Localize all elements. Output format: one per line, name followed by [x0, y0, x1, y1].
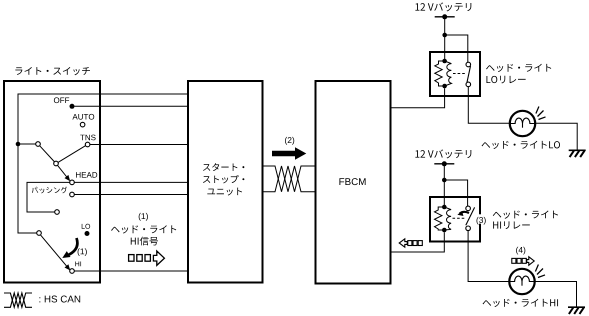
wire: LO contact to lamp: [468, 87, 510, 124]
node: HI branch: [442, 178, 447, 183]
contact AUTO: [80, 122, 85, 127]
relay LO coil: [435, 61, 445, 86]
label (3): [474, 214, 489, 223]
ground: HI lamp: [568, 306, 585, 308]
wire: HEAD to passing common: [27, 182, 70, 212]
label: unit line3: [207, 188, 242, 196]
lamp: head light LO: [510, 111, 535, 136]
wire: passing to unit: [74, 194, 187, 196]
wire: branch to HI contact: [444, 180, 467, 206]
wire: switch common rail from unit: [18, 94, 187, 233]
label: LO relay line1: [486, 64, 551, 72]
label: head light LO: [482, 141, 560, 149]
label: light switch: [15, 67, 90, 75]
contact: rotary joint: [54, 161, 59, 166]
contact: passing common: [55, 210, 60, 215]
battery B+ LO bar: [435, 16, 455, 18]
wire: junction to rotary pivot: [18, 143, 36, 145]
light switch box SW1: [4, 81, 100, 283]
label: start line1: [203, 163, 244, 171]
arrow (1): dimmer movement: [67, 238, 78, 256]
label: HI relay line1: [493, 210, 558, 218]
label AUTO: [72, 114, 94, 120]
contact HI: [70, 269, 75, 274]
label (4): [516, 247, 525, 255]
relay HI contact lower: [466, 226, 471, 231]
icon: (4) signal direction arrow: [512, 258, 516, 263]
wire: HI contact to lamp: [468, 231, 509, 282]
legend: HS CAN text: [39, 296, 80, 303]
switch blade: pivot to joint: [40, 146, 55, 162]
FBCM box U2: [316, 81, 391, 284]
label TNS: [80, 135, 95, 141]
battery B+ LO label: [415, 2, 471, 11]
label: passing: [31, 187, 69, 194]
wire: HS CAN twisted pair bus: [264, 166, 315, 192]
relay HI blade: [466, 207, 475, 225]
arrow (3): relay blade closing: [460, 212, 469, 214]
wire: branch to LO contact: [445, 35, 468, 62]
node: common rail junction: [16, 142, 21, 147]
relay HI link: [453, 217, 466, 219]
battery B+ HI bar: [434, 163, 454, 165]
label LO: [82, 224, 90, 229]
wire: TNS to unit: [90, 144, 187, 146]
contact OFF: [70, 104, 75, 109]
label (1) signal: [139, 213, 148, 221]
label OFF: [54, 97, 69, 103]
label: HI relay line2: [493, 221, 530, 229]
label HI: [75, 261, 81, 266]
contact HEAD: [70, 180, 75, 185]
relay LO link: [453, 73, 466, 75]
relay LO contact upper: [466, 62, 471, 67]
label: head light: [111, 225, 176, 233]
contact: dimmer pivot: [37, 231, 42, 236]
relay HI coil: [435, 207, 445, 230]
arrow (2): CAN signal direction: [272, 147, 306, 159]
label: head light HI: [483, 299, 558, 307]
wire: HI to unit: [74, 270, 187, 272]
switch blade: joint to HEAD: [58, 165, 69, 178]
battery B+ HI label: [415, 149, 471, 158]
wire: battery to HI relay coil: [443, 164, 445, 207]
contact: passing output: [70, 192, 75, 197]
node: LO branch: [442, 33, 447, 38]
wire: HI lamp to ground: [535, 282, 577, 308]
label (2): [285, 137, 294, 145]
legend: HS CAN twisted pair symbol: [4, 293, 32, 307]
label: HI signal: [131, 237, 158, 246]
wire: battery to LO relay coil: [444, 17, 446, 61]
icon: HI signal direction arrow: [129, 255, 134, 262]
relay HI box K2: [430, 197, 480, 242]
start-stop unit box U1: [188, 81, 263, 283]
contact TNS: [85, 142, 90, 147]
wire: OFF to unit: [75, 105, 188, 107]
contact LO: [85, 231, 90, 236]
ground: LO lamp: [569, 149, 586, 151]
label: stop line2: [203, 175, 244, 183]
wire: HEAD to unit: [74, 181, 187, 183]
switch blade: dimmer to HI: [41, 235, 69, 269]
relay HI contact upper: [466, 206, 471, 211]
switch blade: joint to TNS: [58, 146, 85, 163]
relay LO contact lower: [466, 82, 471, 87]
icon: FBCM HI signal direction arrow: [399, 239, 407, 247]
label (1) switch: [78, 248, 87, 256]
wire: FBCM to HI coil: [391, 232, 444, 252]
label FBCM: [339, 178, 365, 185]
relay LO blade: [467, 66, 471, 82]
wire: LO lamp to ground: [535, 123, 577, 150]
relay LO box K1: [430, 52, 480, 96]
lamp: head light HI: [509, 269, 534, 294]
label: LO relay line2: [486, 76, 525, 84]
label HEAD: [76, 172, 97, 178]
wire: FBCM to LO coil: [391, 88, 445, 108]
contact: rotary pivot: [36, 142, 41, 147]
